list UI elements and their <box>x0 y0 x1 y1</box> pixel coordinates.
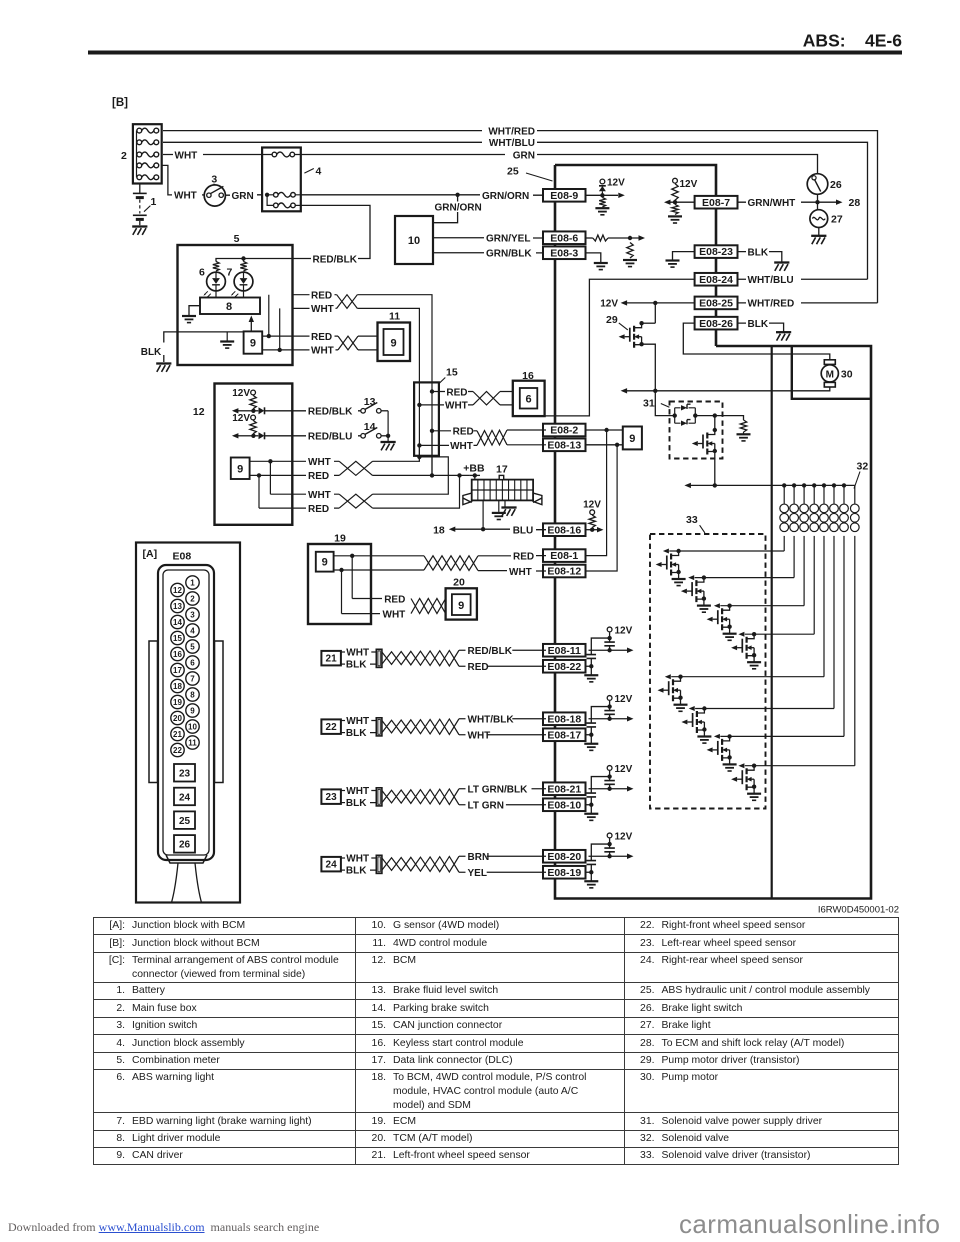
wire LT GRN/BLK <box>459 788 466 790</box>
twist BCM pair2 <box>339 494 372 508</box>
switch 13 out <box>381 410 388 412</box>
wire WHT/BLK to E08 <box>512 718 546 720</box>
wire WHT fuse row3 <box>163 154 262 156</box>
solenoid supply rail <box>690 484 855 486</box>
svg-text:15: 15 <box>173 634 182 643</box>
wire RED E08-1 <box>478 555 546 557</box>
junction block 4 outline <box>262 148 301 212</box>
sensor 21 BLK stub <box>341 663 345 665</box>
svg-text:9: 9 <box>237 463 243 475</box>
sensor 22 WHT stub <box>341 720 345 722</box>
terminal pin 7 <box>186 672 199 685</box>
svg-text:WHT: WHT <box>346 786 369 797</box>
svg-text:BLK: BLK <box>346 728 367 739</box>
CAN driver 9 in meter <box>244 331 263 353</box>
Q8 drain rail <box>745 765 855 767</box>
wire RED/BLK to E08 <box>512 649 546 651</box>
wires into E08-2/13 <box>507 430 546 445</box>
wire YEL to E08 <box>487 871 546 873</box>
Q6 drain rail <box>695 708 834 710</box>
svg-text:E08-7: E08-7 <box>702 197 730 209</box>
svg-text:13: 13 <box>364 396 376 408</box>
svg-text:8: 8 <box>226 301 232 313</box>
arrow 28 to ECM <box>836 200 843 205</box>
svg-text:WHT: WHT <box>175 150 198 161</box>
svg-text:E08-26: E08-26 <box>699 318 733 330</box>
bus WHT vertical <box>418 405 420 461</box>
wire bottom fuse out <box>295 204 301 206</box>
wire 18 to BCM etc <box>455 528 546 531</box>
svg-text:WHT/RED: WHT/RED <box>488 126 535 137</box>
keyless start module 16 <box>513 381 545 416</box>
solenoid valve coil 1 <box>783 485 785 503</box>
solenoid driver transistor Q6 <box>702 706 706 710</box>
motor 30 symbol <box>824 360 835 365</box>
sensor 24 connector bar <box>376 855 382 873</box>
sensor 24 WHT stub <box>341 857 345 859</box>
connector E08-20 <box>543 850 586 863</box>
svg-text:21: 21 <box>173 730 182 739</box>
wire RED/BLK <box>293 205 371 258</box>
combination meter box 5 <box>178 245 293 365</box>
solenoid rail tap 2 <box>792 483 796 487</box>
svg-text:3: 3 <box>211 173 217 185</box>
T ground in meter <box>226 332 228 341</box>
input filter at rows 21 <box>589 649 628 651</box>
svg-text:6: 6 <box>199 267 205 279</box>
svg-text:E08-25: E08-25 <box>699 298 733 310</box>
svg-text:BLK: BLK <box>141 347 162 358</box>
connector E08-10 <box>543 798 586 811</box>
twist meter-4WD <box>338 336 358 350</box>
wire YEL <box>459 871 466 873</box>
terminal pin 25 <box>174 811 195 829</box>
connector side tab left <box>149 641 158 783</box>
fuse bus vertical <box>136 131 138 178</box>
svg-text:25: 25 <box>179 816 191 827</box>
svg-text:22: 22 <box>173 746 182 755</box>
svg-text:E08-10: E08-10 <box>547 799 581 811</box>
junction dot block4 <box>265 193 269 197</box>
twist to 16 <box>473 392 500 405</box>
connector E08-23 <box>695 245 738 258</box>
ground below battery <box>132 225 147 227</box>
connector inner shell <box>163 570 209 855</box>
bus RED vertical <box>431 392 433 476</box>
wire fuse4 to ignition switch <box>162 165 172 195</box>
diode 2 <box>253 435 258 437</box>
tick for 4 <box>304 169 313 174</box>
svg-text:[B]: [B] <box>112 97 128 109</box>
coil 3 lower lead <box>803 536 805 606</box>
connector E08-24 <box>695 273 738 286</box>
svg-text:RED: RED <box>446 387 467 398</box>
svg-text:9: 9 <box>458 600 464 612</box>
wire GRN switch to block4 <box>225 194 267 196</box>
resistor below E08-9 <box>599 198 605 208</box>
sensor 23 BLK stub <box>341 802 345 804</box>
ground below BLK <box>156 362 171 364</box>
twisted pair 24 <box>382 856 459 872</box>
coil 5 lower lead <box>823 536 825 677</box>
resistor 12V 1 <box>250 395 256 408</box>
tick for label 1 <box>144 206 150 212</box>
svg-text:WHT/RED: WHT/RED <box>748 299 795 310</box>
E08-26 left wire to motor <box>683 323 830 360</box>
row WHT to 16 <box>419 404 473 406</box>
junction dot <box>815 200 819 204</box>
wire WHT to E08 <box>487 734 546 736</box>
svg-text:RED/BLK: RED/BLK <box>308 407 353 418</box>
solenoid driver transistor Q5 <box>678 675 682 679</box>
E08-13 right wire <box>587 444 623 446</box>
BCM CAN row A WHT <box>250 460 306 462</box>
svg-text:2: 2 <box>121 150 127 162</box>
svg-text:21: 21 <box>326 654 338 665</box>
pin dots 15 <box>430 389 434 393</box>
connector E08-3 <box>543 246 586 259</box>
svg-text:GRN/ORN: GRN/ORN <box>482 191 529 202</box>
svg-text:BLK: BLK <box>748 247 769 258</box>
resistor to ground E08-7 <box>672 204 678 214</box>
battery 1 plates <box>133 192 147 194</box>
ground at 31 out <box>743 432 745 434</box>
fuse F1 in box 2 <box>137 128 142 133</box>
12V at E08-16 <box>590 510 595 515</box>
meter BLK rail <box>164 332 244 362</box>
terminal pin 6 <box>186 656 199 669</box>
Q1 drain rail <box>669 550 784 552</box>
connector E08-13 <box>543 439 586 452</box>
terminal pin 26 <box>174 835 195 853</box>
solenoid driver transistor Q4 <box>752 632 756 636</box>
connector E08-19 <box>543 866 586 879</box>
wire into TCM <box>408 599 411 614</box>
Q3 drain rail <box>720 605 804 607</box>
junction dot GRN/ORN <box>455 193 459 197</box>
E08-24 left wire to box16 <box>545 279 695 416</box>
svg-text:E08-22: E08-22 <box>547 661 581 673</box>
svg-text:RED: RED <box>311 332 332 343</box>
module8 ground <box>189 306 200 315</box>
wire RED to junction15 <box>357 295 432 392</box>
svg-text:WHT: WHT <box>509 567 532 578</box>
wire RED to E08 <box>487 665 546 667</box>
twisted pair 23 <box>382 789 459 805</box>
svg-text:19: 19 <box>334 533 346 545</box>
wires into 16 <box>500 392 513 405</box>
svg-text:WHT/BLU: WHT/BLU <box>748 275 794 286</box>
svg-text:LT GRN: LT GRN <box>468 801 504 812</box>
svg-text:11: 11 <box>389 311 400 323</box>
wheel speed sensor 23 <box>321 789 341 804</box>
twisted pair 22 <box>382 719 459 735</box>
svg-text:BLK: BLK <box>346 798 367 809</box>
wire WHT/BLU top row <box>163 142 868 279</box>
E08-7 left wire <box>671 201 695 203</box>
branch to box 10 <box>433 195 458 223</box>
switch 14 <box>361 434 366 439</box>
terminal pin 2 <box>186 592 199 605</box>
svg-text:20: 20 <box>173 714 182 723</box>
connector E08-7 <box>695 196 738 209</box>
svg-text:18: 18 <box>433 524 445 536</box>
terminal pin 8 <box>186 688 199 701</box>
solenoid driver transistor Q8 <box>752 764 756 768</box>
coil 7 lower lead <box>843 536 845 737</box>
solenoid rail tap 7 <box>842 483 846 487</box>
input filter at rows 23 <box>589 788 628 790</box>
svg-text:WHT/BLK: WHT/BLK <box>468 715 515 726</box>
svg-text:[A]: [A] <box>143 548 158 560</box>
solenoid valve coil 4 <box>813 485 815 503</box>
wire B to bus <box>334 431 432 476</box>
4WD control module 11 <box>378 323 411 362</box>
solenoid rail tap 6 <box>832 483 836 487</box>
ground below switch 14 <box>387 436 389 441</box>
wire into top fuse <box>262 154 301 156</box>
solenoid valve coil 5 <box>823 485 825 503</box>
CAN driver 9 standalone <box>623 427 642 450</box>
transistor29 source link <box>642 344 656 391</box>
sensor 22 BLK stub <box>341 732 345 734</box>
connector E08-21 <box>543 782 586 795</box>
connector outer shell <box>158 565 214 860</box>
terminal pin 1 <box>186 576 199 589</box>
meter CAN out RED row <box>262 335 338 337</box>
svg-text:25: 25 <box>507 166 519 178</box>
svg-text:24: 24 <box>326 860 338 871</box>
diode to 12V at E08-9 <box>600 179 605 184</box>
svg-text:23: 23 <box>179 769 191 780</box>
terminal pin 20 <box>171 711 184 724</box>
connector E08-1 <box>543 549 586 562</box>
G sensor box 10 <box>395 216 433 264</box>
svg-text:RED: RED <box>513 552 534 563</box>
svg-text:M: M <box>826 369 834 380</box>
svg-text:E08-1: E08-1 <box>550 550 578 562</box>
svg-text:BRN: BRN <box>468 852 490 863</box>
connector E08-2 <box>543 424 586 437</box>
svg-text:E08-13: E08-13 <box>547 439 581 451</box>
E08-6 output wire <box>587 237 593 239</box>
svg-text:12V: 12V <box>583 500 601 511</box>
svg-text:BLK: BLK <box>748 319 769 330</box>
terminal pin 10 <box>186 720 199 733</box>
label GRN/ORN branch <box>434 202 484 213</box>
terminal pin 21 <box>171 727 184 740</box>
row WHT to E08-13 <box>419 444 477 446</box>
svg-text:GRN: GRN <box>513 150 535 161</box>
terminal pin 11 <box>186 736 199 749</box>
E08-23 left ground <box>673 252 695 260</box>
svg-text:5: 5 <box>234 233 240 245</box>
BCM box 12 <box>215 384 293 525</box>
svg-text:3: 3 <box>190 610 195 619</box>
ECM lower WHT <box>342 613 381 615</box>
svg-text:WHT: WHT <box>346 648 369 659</box>
sensor 24 wires to connector <box>370 858 376 870</box>
inner divider vertical <box>771 346 773 899</box>
12V source 1 in BCM <box>251 390 256 395</box>
sensor 23 WHT stub <box>341 790 345 792</box>
ABS hydraulic unit box 25 outline <box>555 165 871 899</box>
ground below E08-9 <box>595 207 609 209</box>
svg-text:28: 28 <box>849 197 861 209</box>
DLC ground stub1 <box>498 500 500 512</box>
pump motor driver transistor 29 <box>639 321 643 325</box>
svg-text:24: 24 <box>179 792 191 803</box>
svg-text:GRN: GRN <box>232 191 254 202</box>
svg-text:GRN/ORN: GRN/ORN <box>435 202 482 213</box>
svg-text:E08-3: E08-3 <box>550 247 578 259</box>
svg-text:WHT: WHT <box>383 609 406 620</box>
wire WHT/BLK <box>459 718 466 720</box>
svg-text:WHT: WHT <box>450 441 473 452</box>
terminal pin 9 <box>186 704 199 717</box>
terminal view box [A] <box>136 543 240 903</box>
sensor 23 connector bar <box>376 788 382 806</box>
wire arrow left 1 <box>238 410 253 412</box>
svg-text:12V: 12V <box>607 177 625 188</box>
svg-text:WHT: WHT <box>445 401 468 412</box>
connector E08-25 <box>695 297 738 310</box>
svg-text:E08-12: E08-12 <box>547 566 581 578</box>
coil 4 lower lead <box>813 536 815 634</box>
fuse bottom in block 4 <box>274 203 279 208</box>
wire LT GRN <box>459 804 466 806</box>
driver 31 dashed box <box>670 402 723 459</box>
svg-text:14: 14 <box>364 421 376 433</box>
svg-text:12V: 12V <box>615 625 633 636</box>
wire to switch RED/BLK <box>292 410 361 412</box>
pmos pair diode lower <box>681 421 687 426</box>
arrow 9 to 8 <box>250 321 252 331</box>
svg-text:32: 32 <box>857 461 869 473</box>
svg-text:30: 30 <box>841 369 853 381</box>
svg-text:E08-9: E08-9 <box>550 190 578 202</box>
svg-text:I6RW0D450001-02: I6RW0D450001-02 <box>818 905 899 916</box>
solenoid valve coil 3 <box>803 485 805 503</box>
tick for 3 <box>213 184 215 186</box>
fuse F3 in box 2 <box>137 152 142 157</box>
row RED to E08-2 <box>432 430 477 432</box>
ECM lower RED <box>352 598 382 600</box>
Q2 drain rail <box>695 577 795 579</box>
lamp 6 resistor <box>213 262 219 272</box>
tick 29 <box>619 323 628 330</box>
riser E08-2 to E08-1 <box>587 430 607 556</box>
svg-text:9: 9 <box>190 706 195 715</box>
svg-text:E08-17: E08-17 <box>547 729 581 741</box>
BCM CAN row D RED <box>259 507 306 509</box>
terminal pin 18 <box>171 679 184 692</box>
vertical 12V rail <box>654 303 656 323</box>
ECM row WHT <box>334 569 424 571</box>
svg-text:ABS: 4E-6: ABS: 4E-6 <box>803 31 902 51</box>
wire LT GRN to E08 <box>506 804 546 806</box>
svg-text:WHT: WHT <box>468 731 491 742</box>
terminal pin 13 <box>171 599 184 612</box>
coil 8 lower lead <box>854 536 856 766</box>
svg-text:RED: RED <box>384 594 405 605</box>
svg-text:WHT: WHT <box>308 457 331 468</box>
E08-25 left wire 12V <box>627 302 695 304</box>
12V source 2 in BCM <box>251 415 256 420</box>
svg-text:WHT: WHT <box>174 191 197 202</box>
wire mid fuse <box>267 194 301 196</box>
sensor 21 WHT stub <box>341 651 345 653</box>
tick for 25 <box>526 173 553 181</box>
BCM CAN row B RED <box>250 474 306 476</box>
svg-text:11: 11 <box>188 738 197 747</box>
svg-text:12V: 12V <box>232 413 250 424</box>
TCM box 20 <box>446 588 477 619</box>
CAN junction connector 15 <box>414 382 439 455</box>
ECM box 19 <box>308 544 371 624</box>
svg-text:14: 14 <box>173 618 182 627</box>
wire C join <box>334 457 448 494</box>
wire pair to box 11 <box>358 336 378 350</box>
svg-text:1: 1 <box>190 578 195 587</box>
svg-text:WHT: WHT <box>311 304 334 315</box>
tick 32 <box>854 472 860 489</box>
rail to solenoid driver 31 <box>655 391 675 416</box>
inline resistor E08-6 <box>593 235 608 241</box>
switch 13 to 14 link <box>387 411 389 436</box>
ABS warning light 6 <box>207 272 226 291</box>
E08-2 right wire <box>587 429 623 431</box>
svg-text:22: 22 <box>326 722 338 733</box>
svg-text:26: 26 <box>830 179 842 191</box>
wheel speed sensor 21 <box>321 651 341 666</box>
connector E08-16 <box>543 523 586 536</box>
E08-16 right wire <box>587 529 598 531</box>
svg-text:WHT: WHT <box>346 854 369 865</box>
tick 33 <box>700 525 705 533</box>
header rule <box>88 51 902 55</box>
connector E08-9 <box>543 189 586 202</box>
twisted pair 21 <box>382 650 459 666</box>
twist BCM pair1 <box>339 461 372 475</box>
svg-text:6: 6 <box>190 658 195 667</box>
ground E08-26 right <box>776 331 791 333</box>
svg-text:E08-21: E08-21 <box>547 783 581 795</box>
svg-text:+BB: +BB <box>463 463 485 475</box>
solenoid rail tap 4 <box>812 483 816 487</box>
sensor 23 wires to connector <box>370 791 376 803</box>
svg-text:18: 18 <box>173 682 182 691</box>
svg-text:RED/BLK: RED/BLK <box>313 254 358 265</box>
solenoid rail tap 5 <box>822 483 826 487</box>
ground E08-23 right <box>774 261 789 263</box>
fuse F2 in box 2 <box>137 140 142 145</box>
meter supply rail <box>216 259 293 262</box>
nmos in 31 <box>714 416 716 430</box>
tick 31 <box>661 404 670 408</box>
wire fusebox to battery <box>139 184 141 193</box>
svg-text:6: 6 <box>526 394 532 406</box>
svg-text:23: 23 <box>326 792 338 803</box>
meter CAN out WHT row <box>262 349 338 351</box>
connector wire left <box>172 863 179 903</box>
meter top pair RED wire <box>293 294 337 296</box>
svg-text:7: 7 <box>227 267 233 279</box>
EBD warning light 7 <box>234 272 253 291</box>
terminal pin 19 <box>171 695 184 708</box>
solenoid rail tap 1 <box>782 483 786 487</box>
motor bottom wire <box>627 387 830 391</box>
